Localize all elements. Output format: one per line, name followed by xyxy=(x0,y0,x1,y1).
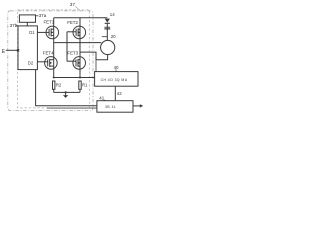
svg-text:FET4: FET4 xyxy=(43,51,54,56)
box 40 control circuit xyxy=(95,72,138,87)
motor 20 xyxy=(101,40,115,54)
op FET1 xyxy=(37,26,58,39)
svg-text:42: 42 xyxy=(117,91,122,96)
sense wire to box 40 xyxy=(54,77,95,79)
gate tie vertical xyxy=(66,32,68,61)
op FET2 xyxy=(67,26,86,39)
wire E to bar xyxy=(6,49,18,51)
label D2 xyxy=(28,60,34,65)
wire node B to box 40 xyxy=(95,60,97,72)
node A wire to motor xyxy=(54,42,102,44)
wire lower into box41 xyxy=(47,107,97,109)
svg-text:D1: D1 xyxy=(29,30,35,35)
resistor R1 xyxy=(79,81,81,89)
box 37a xyxy=(19,15,35,22)
junction at bar xyxy=(17,49,19,51)
label 37 xyxy=(70,2,76,7)
wire FET2/FET3 vertical xyxy=(79,18,81,78)
wire 42 box40 to box41 xyxy=(114,86,116,101)
wire R1 bottom xyxy=(79,89,81,92)
wire driver bar to box41 xyxy=(36,70,97,106)
wire R2 bottom xyxy=(53,89,55,92)
output arrow xyxy=(133,105,140,107)
node B wire xyxy=(80,52,108,60)
driver bar 37b xyxy=(18,26,37,70)
svg-text:R2: R2 xyxy=(56,83,62,88)
resistor R2 xyxy=(53,81,55,89)
enclosure 37 outer chain border xyxy=(8,11,93,111)
svg-text:3B 4L: 3B 4L xyxy=(105,105,116,109)
bottom rail xyxy=(54,91,80,93)
label 37a xyxy=(36,15,39,17)
svg-text:14: 14 xyxy=(110,12,115,17)
wire FET1/FET4 vertical xyxy=(53,18,55,78)
op FET3 xyxy=(67,57,85,70)
label 37b xyxy=(10,23,18,28)
svg-text:37a: 37a xyxy=(39,13,47,18)
svg-text:37: 37 xyxy=(70,2,76,7)
junction dot xyxy=(65,91,67,93)
svg-text:FET1: FET1 xyxy=(44,20,55,25)
svg-text:D2: D2 xyxy=(28,60,34,65)
box 41 xyxy=(97,101,133,113)
svg-text:R1: R1 xyxy=(82,83,88,88)
ground xyxy=(65,92,67,95)
terminal E xyxy=(2,49,6,55)
svg-text:FET3: FET3 xyxy=(67,51,78,56)
svg-text:40: 40 xyxy=(114,65,119,70)
top supply rail xyxy=(54,17,108,19)
enclosure inner dashed border xyxy=(18,10,90,108)
label D1 xyxy=(29,30,35,35)
capacitor junction blob 22 xyxy=(104,26,110,29)
wire 37a to driver bar xyxy=(26,22,28,26)
svg-text:FET2: FET2 xyxy=(67,20,78,25)
diode 14 xyxy=(105,19,110,23)
junction dot xyxy=(53,77,55,79)
junction dot xyxy=(79,77,81,79)
svg-text:CH 4O 3Q MU: CH 4O 3Q MU xyxy=(101,78,128,82)
svg-text:20: 20 xyxy=(111,34,116,39)
wire supply to motor xyxy=(106,23,108,40)
op FET4 xyxy=(37,57,57,70)
